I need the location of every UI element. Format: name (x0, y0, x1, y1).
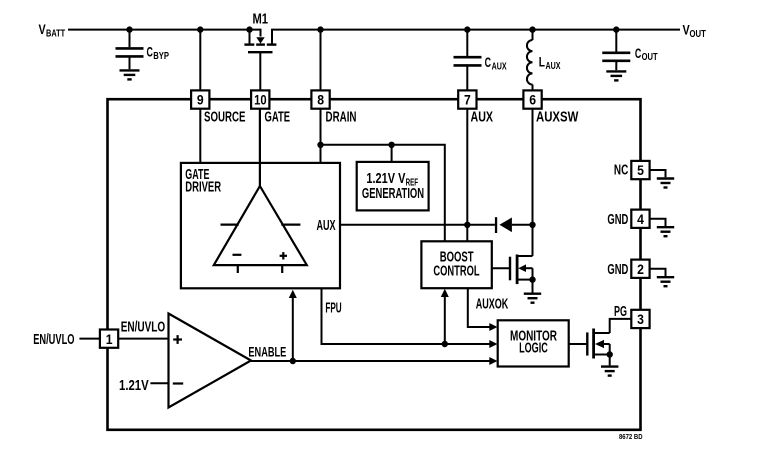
op-amp EN comparator (169, 314, 252, 408)
svg-text:5: 5 (637, 163, 644, 178)
svg-text:FPU: FPU (325, 301, 341, 317)
wire AUXOK from boost control to monitor logic (468, 288, 490, 327)
svg-text:AUXSW: AUXSW (536, 110, 579, 126)
svg-text:CONTROL: CONTROL (433, 264, 479, 280)
svg-text:GND: GND (607, 262, 628, 278)
M1 body arrow (256, 37, 264, 43)
transistor M1 (external PMOS) (244, 30, 276, 91)
wire pin9 internal column down to gate driver (199, 108, 201, 163)
svg-text:1: 1 (106, 332, 113, 347)
svg-text:SOURCE: SOURCE (204, 110, 246, 126)
minus sign EN comparator (173, 382, 183, 384)
wire arrow up into boost control (444, 296, 446, 344)
pin 3 PG (631, 310, 649, 328)
box 1.21V VREF GENERATION (357, 162, 429, 211)
svg-text:8672 BD: 8672 BD (619, 432, 643, 441)
svg-text:AUX: AUX (492, 60, 507, 72)
wire pin8 column from rail (320, 30, 322, 91)
box MONITOR LOGIC (498, 320, 569, 366)
wire internal rail y=144.8 to vref and boost column (321, 145, 445, 242)
svg-text:GND: GND (607, 212, 628, 228)
svg-text:PG: PG (614, 304, 627, 320)
svg-text:DRAIN: DRAIN (326, 110, 357, 126)
svg-text:EN/UVLO: EN/UVLO (33, 332, 74, 348)
svg-text:M1: M1 (253, 11, 269, 27)
svg-text:GATE: GATE (265, 110, 291, 126)
svg-text:LOGIC: LOGIC (519, 340, 548, 356)
wire FPU from gate driver bottom (322, 288, 490, 344)
box BOOST CONTROL (421, 241, 491, 288)
svg-text:EN/UVLO: EN/UVLO (121, 320, 166, 336)
minus sign in gate driver triangle (233, 254, 242, 256)
wire ENABLE from comparator to monitor logic (251, 360, 490, 362)
ground below PG NMOS (601, 367, 618, 376)
inductor LAUX (527, 30, 533, 91)
pin 7 AUX (458, 90, 476, 108)
wire top rail right segment M1 drain to VOUT (272, 30, 680, 44)
op-amp gate driver triangle (214, 108, 307, 273)
wire pin9 column from rail (199, 30, 201, 91)
wire arrow up into gate driver (292, 297, 294, 361)
wire pin7 column down through AUX node to boost control (466, 108, 468, 241)
svg-text:OUT: OUT (690, 28, 707, 40)
svg-text:8: 8 (317, 93, 324, 108)
pin 10 GATE (251, 90, 269, 108)
svg-text:BYP: BYP (153, 50, 169, 62)
capacitor CAUX (454, 30, 482, 91)
svg-text:DRIVER: DRIVER (185, 180, 221, 196)
svg-text:C: C (147, 44, 153, 60)
pin 2 GND (650, 269, 666, 276)
svg-text:GENERATION: GENERATION (362, 186, 424, 202)
capacitor CBYP (116, 30, 144, 70)
svg-text:AUX: AUX (471, 110, 494, 126)
svg-text:7: 7 (464, 93, 471, 108)
input arrowheads into monitor logic (489, 323, 497, 331)
svg-text:ENABLE: ENABLE (248, 344, 286, 359)
pin 9 SOURCE (191, 90, 209, 108)
ground below CBYP (120, 70, 140, 79)
transistor PG NMOS (569, 319, 632, 366)
svg-text:NC: NC (614, 162, 629, 178)
svg-text:1.21V: 1.21V (119, 378, 149, 394)
svg-text:6: 6 (529, 93, 536, 108)
capacitor COUT (602, 30, 630, 71)
IC outline (108, 99, 641, 430)
transistor boost NMOS (492, 255, 533, 293)
wire AUX row from gate driver to diode (340, 224, 495, 226)
diode D1 (495, 217, 497, 233)
svg-text:L: L (539, 54, 546, 70)
pin 6 AUXSW (523, 90, 541, 108)
svg-text:1.21V V: 1.21V V (366, 171, 405, 187)
pin 8 DRAIN (311, 90, 329, 108)
svg-text:10: 10 (254, 93, 267, 108)
ground below boost NMOS (524, 294, 541, 303)
plus sign EN comparator (173, 335, 182, 344)
ground below COUT (606, 71, 626, 80)
svg-text:9: 9 (197, 93, 204, 108)
box GATE DRIVER (181, 163, 340, 288)
svg-text:AUXOK: AUXOK (476, 297, 509, 313)
node VOUT label (683, 22, 707, 41)
wire top rail left segment VBATT to M1 body (68, 30, 261, 37)
svg-text:OUT: OUT (642, 51, 658, 63)
svg-text:AUX: AUX (546, 60, 561, 72)
wire pin8 internal column down to gate driver (320, 108, 322, 163)
svg-text:4: 4 (637, 212, 644, 227)
node VBATT label (39, 21, 66, 40)
pin 5 NC (650, 170, 666, 177)
svg-text:C: C (635, 45, 641, 61)
pin 4 GND (650, 219, 666, 226)
wire vref stub (391, 145, 393, 162)
svg-text:AUX: AUX (317, 218, 336, 234)
plus sign in gate driver triangle (280, 252, 287, 259)
svg-text:2: 2 (637, 262, 644, 277)
svg-text:C: C (485, 54, 491, 70)
wire pin6 AUXSW column down to diode node (532, 108, 534, 256)
svg-text:BATT: BATT (46, 28, 66, 40)
svg-text:3: 3 (637, 312, 644, 327)
